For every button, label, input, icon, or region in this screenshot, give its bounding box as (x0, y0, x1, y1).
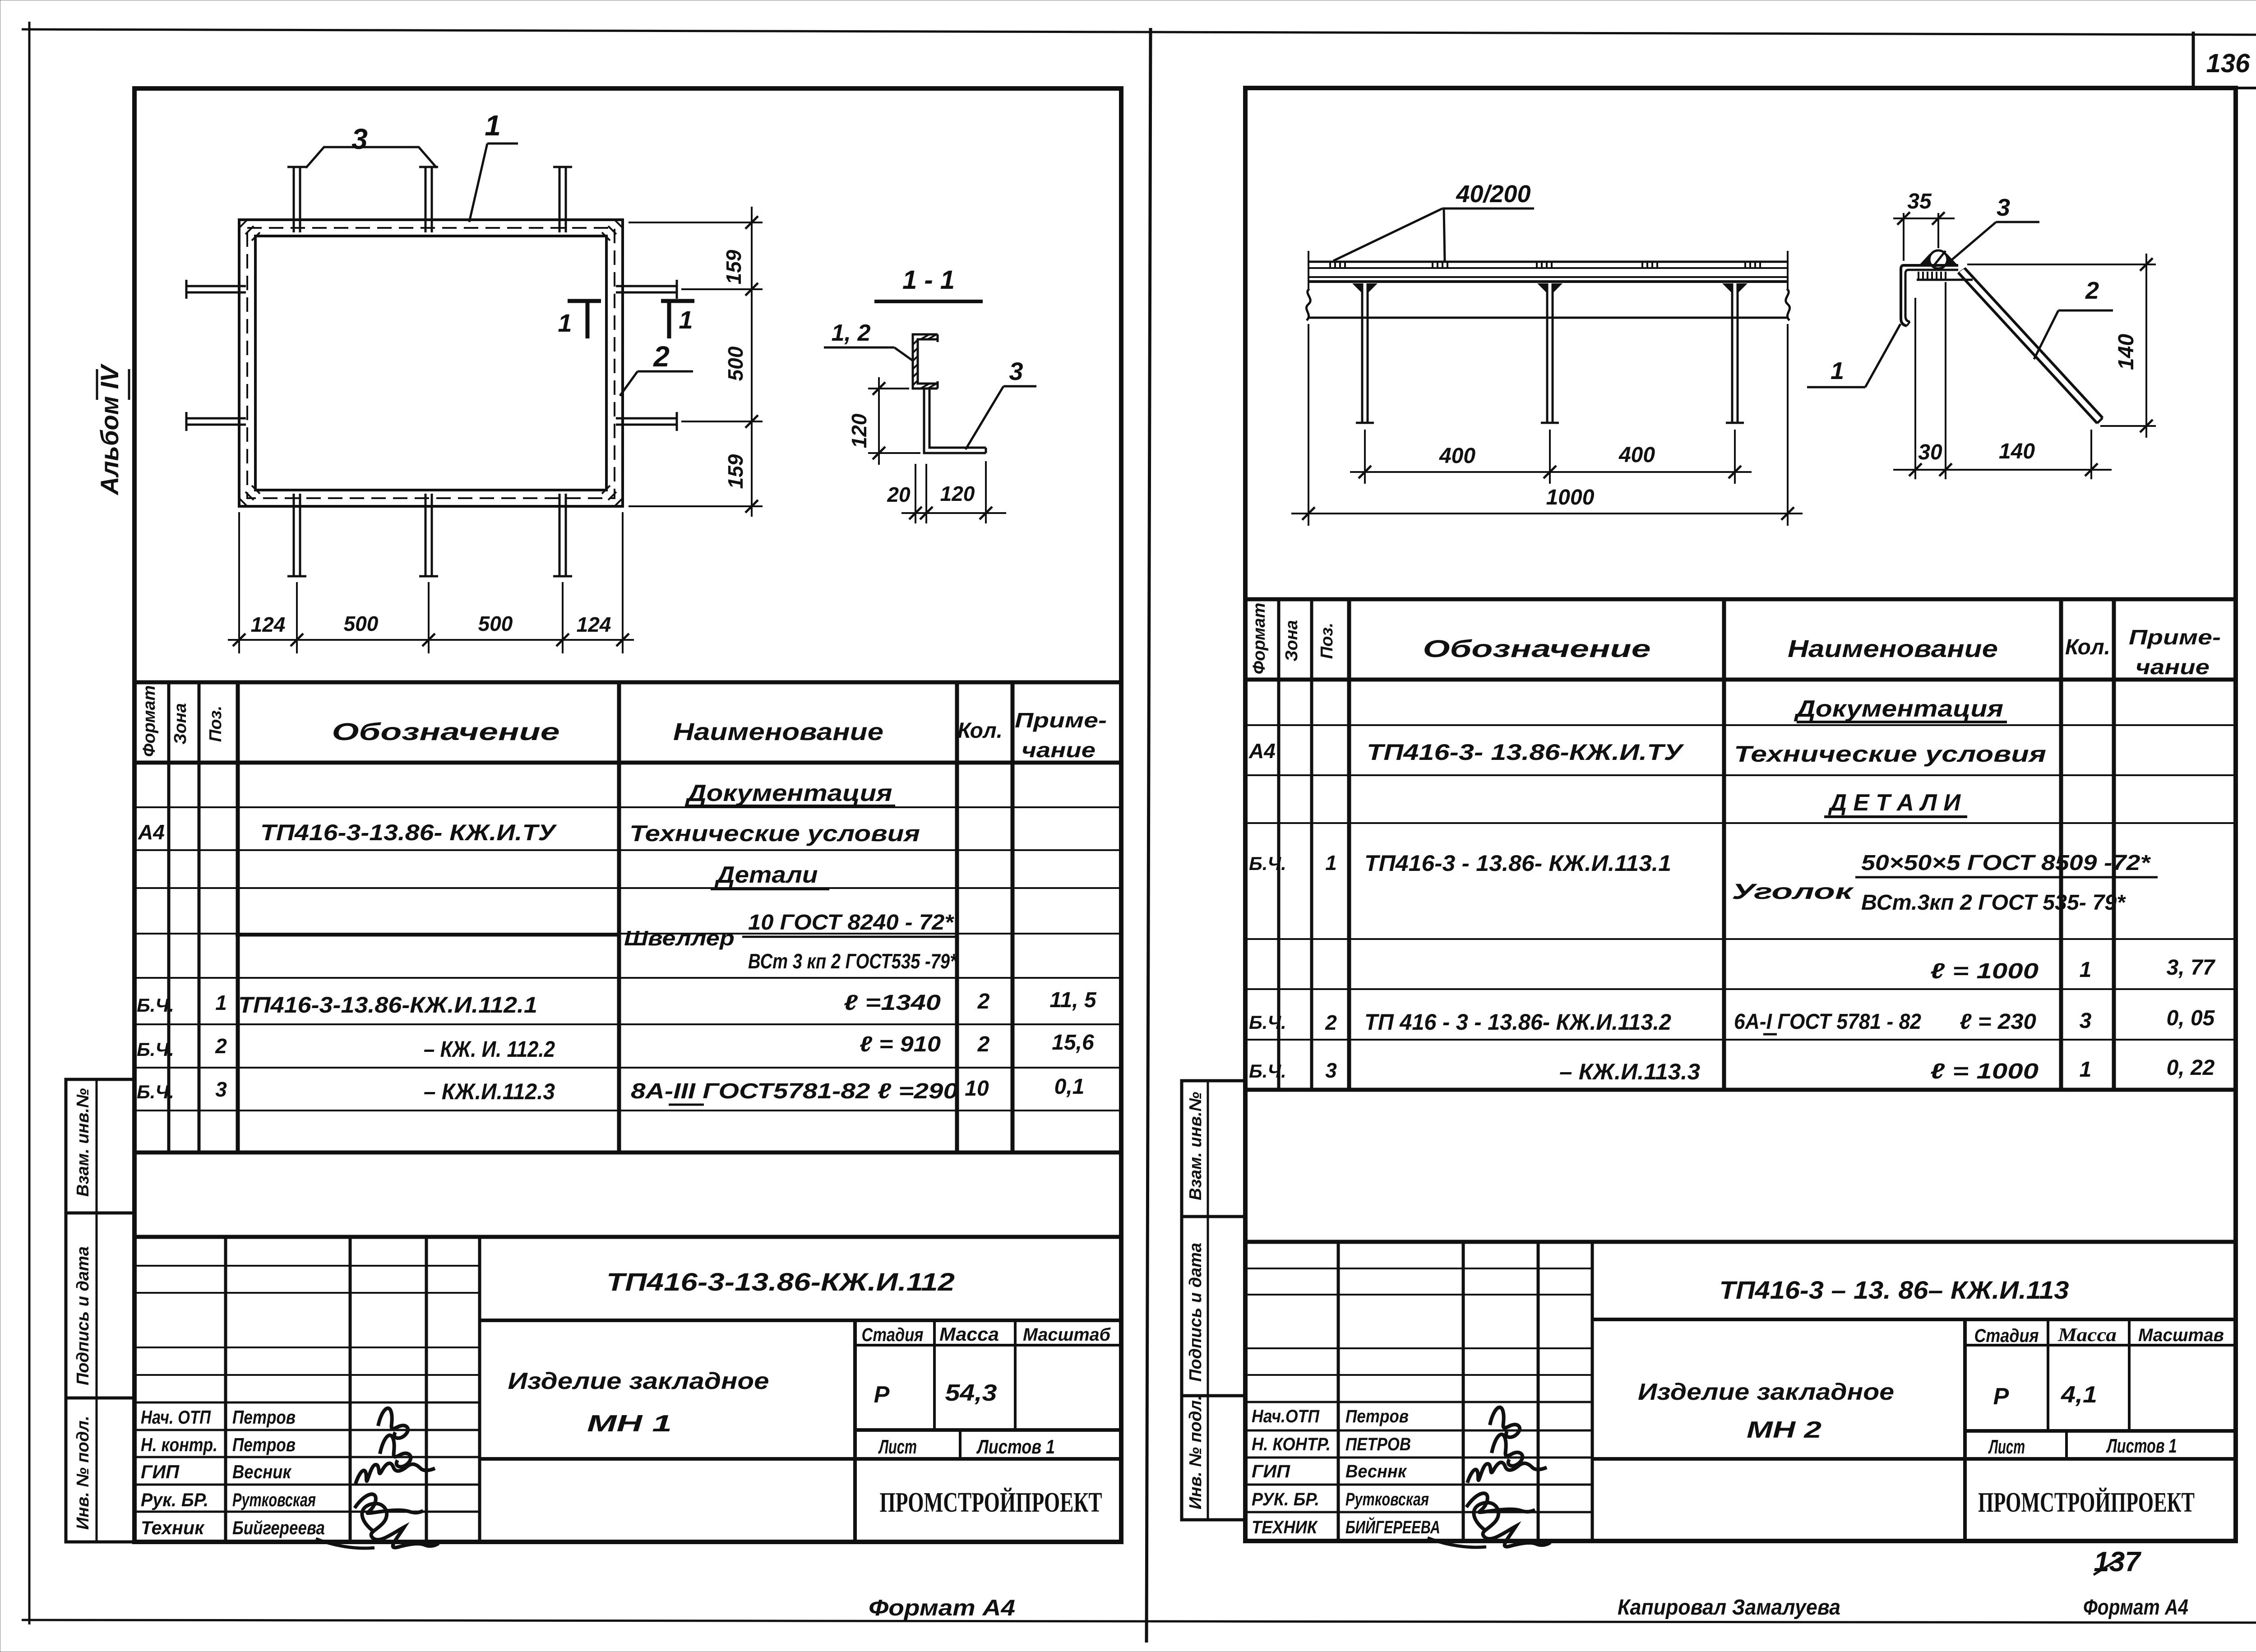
title block sheet 1: signature Техник (362, 1504, 439, 1548)
svg-text:4,1: 4,1 (2061, 1382, 2097, 1408)
svg-text:2: 2 (1325, 1011, 1337, 1034)
svg-text:Весник: Весник (232, 1461, 291, 1482)
svg-text:1: 1 (679, 305, 693, 334)
plan view: right dimension line 159/500/159 (751, 207, 753, 517)
svg-text:Петров: Петров (232, 1434, 296, 1455)
plan view: anchor studs поз.3, right edge (616, 285, 677, 287)
plan view: anchor studs поз.3, left edge (186, 285, 246, 287)
svg-text:30: 30 (1918, 440, 1942, 464)
title block sheet 2: signature Техник (1474, 1503, 1550, 1547)
svg-text:ТП416-3- 13.86-КЖ.И.ТУ: ТП416-3- 13.86-КЖ.И.ТУ (1367, 740, 1685, 765)
svg-text:1: 1 (1325, 851, 1337, 875)
svg-text:8А-III ГОСТ5781-82 ℓ =290: 8А-III ГОСТ5781-82 ℓ =290 (631, 1079, 958, 1103)
svg-text:Б.Ч.: Б.Ч. (1249, 1060, 1286, 1082)
svg-text:Техник: Техник (141, 1517, 205, 1538)
underline of IV (128, 369, 130, 400)
svg-text:РУК. БР.: РУК. БР. (1252, 1490, 1319, 1509)
svg-text:Б.Ч.: Б.Ч. (137, 1081, 174, 1102)
svg-text:Б.Ч.: Б.Ч. (1249, 1012, 1286, 1033)
svg-text:0, 22: 0, 22 (2167, 1056, 2215, 1080)
section 1-1: vertical dim 120 (878, 377, 880, 465)
svg-text:1 - 1: 1 - 1 (902, 265, 955, 295)
svg-text:Лист: Лист (1988, 1436, 2025, 1458)
spec table sheet 1: column lines (167, 682, 171, 1152)
svg-text:Капировал Замалуева: Капировал Замалуева (1618, 1596, 1840, 1620)
title block sheet 2: signature Нач.ОТП (1490, 1407, 1520, 1437)
title block sheet 1: frame lines (134, 1235, 1121, 1239)
svg-text:А4: А4 (138, 820, 165, 844)
svg-text:Швеллер: Швеллер (624, 926, 735, 950)
svg-text:чание: чание (1022, 738, 1096, 762)
svg-text:Кол.: Кол. (957, 719, 1003, 743)
svg-text:15,6: 15,6 (1052, 1031, 1094, 1055)
svg-text:3: 3 (2080, 1009, 2092, 1033)
svg-text:ТП416-3 – 13. 86– КЖ.И.113: ТП416-3 – 13. 86– КЖ.И.113 (1720, 1276, 2069, 1304)
svg-text:Масса: Масса (939, 1323, 999, 1345)
svg-text:40/200: 40/200 (1456, 180, 1530, 208)
title block sheet 1: column verticals (224, 1237, 227, 1542)
plan view: dashed centre line rectangle (247, 228, 615, 498)
svg-text:Б.Ч.: Б.Ч. (137, 1039, 174, 1060)
svg-text:Стадия: Стадия (1974, 1325, 2039, 1346)
section 1-1: anchor поз.3 (L-bar) (924, 389, 986, 453)
svg-text:2: 2 (215, 1034, 227, 1058)
plan view: channel frame outer rectangle (поз.1,2) (239, 220, 623, 506)
title block sheet 2: signature ГИП (1467, 1462, 1547, 1483)
title block sheet 2: thin rows upper area (1245, 1268, 1592, 1269)
page number box vertical (2192, 32, 2195, 89)
svg-text:Кол.: Кол. (2065, 635, 2110, 659)
elevation: anchor studs поз.2 (1361, 283, 1364, 423)
plan view: right extension lines (629, 222, 763, 223)
svg-text:Поз.: Поз. (1318, 623, 1336, 659)
svg-text:Подпись и дата: Подпись и дата (1186, 1243, 1205, 1382)
svg-text:3: 3 (1997, 194, 2010, 221)
svg-text:3: 3 (1325, 1059, 1337, 1082)
svg-text:Взам. инв.№: Взам. инв.№ (1186, 1092, 1205, 1200)
svg-text:Петров: Петров (232, 1407, 296, 1428)
svg-text:1, 2: 1, 2 (832, 320, 871, 346)
section 1-1: channel profile (поз.1,2) (913, 334, 938, 389)
svg-text:Бийгереева: Бийгереева (232, 1517, 325, 1538)
svg-text:Наименование: Наименование (673, 718, 883, 745)
svg-text:3: 3 (215, 1078, 227, 1101)
svg-text:МН 2: МН 2 (1747, 1417, 1821, 1443)
overline of IV (96, 369, 98, 400)
elevation: dim line 400 400 (1350, 471, 1752, 473)
svg-text:140: 140 (1999, 440, 2035, 463)
svg-text:Зона: Зона (1282, 620, 1301, 662)
svg-text:Приме-: Приме- (2129, 625, 2221, 649)
side box Подпись и дата (sheet 1) (66, 1213, 134, 1398)
side box Подпись и дата (sheet 2) (1182, 1217, 1245, 1396)
svg-text:10 ГОСТ 8240 - 72*: 10 ГОСТ 8240 - 72* (748, 911, 954, 935)
svg-text:ТП416-3 - 13.86- КЖ.И.113.1: ТП416-3 - 13.86- КЖ.И.113.1 (1364, 851, 1671, 876)
side box Взам. инв.№ (sheet 1) (66, 1079, 134, 1213)
svg-text:Масса: Масса (2057, 1325, 2117, 1346)
sheet 1 drawing frame (134, 88, 1121, 1542)
title block sheet 2: signature Н.контр. (1492, 1435, 1522, 1466)
side box Инв. № подл. (sheet 1) (66, 1398, 134, 1542)
svg-text:Нач.ОТП: Нач.ОТП (1252, 1407, 1320, 1426)
svg-text:Документация: Документация (685, 780, 892, 806)
svg-text:1: 1 (2080, 958, 2092, 982)
svg-text:3: 3 (351, 123, 368, 155)
svg-text:ПРОМСТРОЙПРОЕКТ: ПРОМСТРОЙПРОЕКТ (1978, 1487, 2195, 1518)
svg-text:ℓ = 910: ℓ = 910 (860, 1032, 941, 1056)
svg-text:ПЕТРОВ: ПЕТРОВ (1345, 1435, 1411, 1454)
side box Инв. № подл. (sheet 2) (1182, 1396, 1245, 1520)
svg-text:– КЖ.И.113.3: – КЖ.И.113.3 (1559, 1059, 1700, 1084)
svg-text:1: 1 (485, 109, 501, 142)
title block sheet 1: personnel row lines (134, 1402, 480, 1404)
svg-text:МН 1: МН 1 (587, 1411, 672, 1437)
svg-text:ℓ =1340: ℓ =1340 (844, 991, 941, 1015)
detail: vertical dim 140 (2145, 254, 2147, 438)
plan view: section mark 1 (left) (568, 299, 601, 303)
svg-text:159: 159 (724, 454, 747, 489)
svg-text:54,3: 54,3 (945, 1380, 997, 1406)
spec table sheet 2: column lines (1277, 599, 1281, 1090)
svg-text:Детали: Детали (714, 862, 818, 888)
svg-text:500: 500 (724, 346, 747, 381)
svg-text:Листов 1: Листов 1 (976, 1436, 1055, 1458)
svg-text:Лист: Лист (878, 1436, 917, 1458)
svg-text:1: 1 (1831, 357, 1844, 384)
svg-text:Б.Ч.: Б.Ч. (1249, 853, 1286, 874)
svg-text:2: 2 (653, 340, 670, 373)
svg-text:0, 05: 0, 05 (2167, 1006, 2215, 1030)
svg-text:Б.Ч.: Б.Ч. (137, 995, 174, 1016)
svg-text:1000: 1000 (1546, 486, 1595, 509)
plan view: anchor studs поз.3, top edge (293, 167, 295, 232)
title block sheet 1: thin rows upper area (134, 1265, 480, 1267)
svg-text:159: 159 (722, 250, 745, 284)
svg-text:ТЕХНИК: ТЕХНИК (1252, 1518, 1318, 1537)
scan border bottom line (22, 1620, 2256, 1623)
elevation: left end edge and break mark (1308, 251, 1309, 289)
svg-text:Рутковская: Рутковская (1345, 1490, 1429, 1509)
svg-text:ГИП: ГИП (141, 1461, 180, 1482)
section 1-1: channel hatching (913, 339, 918, 345)
svg-text:Петров: Петров (1345, 1407, 1409, 1426)
svg-text:Зона: Зона (171, 703, 190, 745)
svg-text:Формат: Формат (140, 685, 159, 757)
svg-text:3: 3 (1009, 357, 1023, 385)
svg-text:Инв. № подл.: Инв. № подл. (74, 1416, 92, 1530)
svg-text:Поз.: Поз. (206, 706, 225, 742)
svg-text:120: 120 (940, 482, 975, 505)
title block sheet 2: signature Рук.бр. (1466, 1493, 1535, 1512)
svg-text:А4: А4 (1248, 739, 1276, 763)
svg-text:Документация: Документация (1794, 696, 2003, 722)
detail: inclined anchor поз.2 (1958, 273, 2097, 423)
svg-text:Взам. инв.№: Взам. инв.№ (74, 1088, 92, 1197)
svg-text:Формат: Формат (1250, 603, 1269, 675)
svg-text:0,1: 0,1 (1054, 1075, 1085, 1099)
svg-text:Уголок: Уголок (1732, 880, 1854, 904)
svg-text:чание: чание (2136, 655, 2210, 679)
svg-text:500: 500 (478, 612, 513, 635)
title block sheet 2: top line (1245, 1240, 2236, 1244)
detail: bottom dims 30 and 140 (1893, 469, 2112, 471)
elevation: weld tick groups on angle (1329, 263, 1331, 269)
svg-text:Н. КОНТР.: Н. КОНТР. (1252, 1435, 1331, 1454)
svg-text:БИЙГЕРЕЕВА: БИЙГЕРЕЕВА (1345, 1516, 1440, 1537)
svg-text:500: 500 (344, 612, 379, 635)
svg-text:6А-I ГОСТ 5781 - 82: 6А-I ГОСТ 5781 - 82 (1734, 1010, 1921, 1034)
svg-text:Наименование: Наименование (1788, 635, 1998, 662)
detail: dim 35 (1893, 217, 1955, 219)
elevation: right end edge and break mark (1787, 251, 1789, 289)
svg-text:Рутковская: Рутковская (232, 1489, 316, 1510)
svg-text:ℓ = 230: ℓ = 230 (1960, 1010, 2036, 1034)
detail: slash through rod circle (1933, 251, 1946, 267)
detail: weld ticks under angle top leg (1918, 272, 1919, 279)
svg-text:Формат А4: Формат А4 (2083, 1596, 2188, 1620)
svg-text:Листов 1: Листов 1 (2106, 1435, 2177, 1457)
svg-text:136: 136 (2206, 49, 2251, 78)
svg-text:Н. контр.: Н. контр. (141, 1434, 217, 1455)
detail: angle поз.1 section (1901, 265, 1958, 326)
svg-text:Приме-: Приме- (1015, 708, 1107, 732)
elevation: lower edge line of angle leg (1308, 317, 1788, 319)
svg-text:400: 400 (1618, 443, 1655, 467)
svg-text:Р: Р (874, 1382, 890, 1408)
svg-text:Нач. ОТП: Нач. ОТП (141, 1407, 211, 1428)
svg-text:ТП416-3-13.86- КЖ.И.ТУ: ТП416-3-13.86- КЖ.И.ТУ (260, 820, 558, 845)
svg-text:3, 77: 3, 77 (2167, 956, 2216, 980)
title block sheet 2: column verticals (1337, 1242, 1340, 1540)
spec row: Швеллер fraction (236, 935, 618, 937)
svg-text:ℓ = 1000: ℓ = 1000 (1930, 1060, 2039, 1083)
svg-text:1: 1 (558, 309, 572, 337)
title block sheet 1: signature Нач.ОТП (378, 1408, 408, 1438)
spec table sheet 2: row lines (1245, 724, 2236, 726)
svg-text:Изделие закладное: Изделие закладное (1638, 1379, 1894, 1405)
svg-text:ТП 416 - 3 - 13.86- КЖ.И.113.2: ТП 416 - 3 - 13.86- КЖ.И.113.2 (1364, 1009, 1671, 1035)
plan view: bottom dimension line 124/500/500/124 (228, 639, 634, 641)
elevation: angle bar horizontal lines (1308, 261, 1788, 263)
svg-text:2: 2 (2085, 277, 2099, 304)
svg-text:Рук. БР.: Рук. БР. (141, 1489, 208, 1510)
elevation: dim line 1000 (1291, 513, 1803, 514)
scan border top line (22, 29, 2256, 35)
svg-text:ПРОМСТРОЙПРОЕКТ: ПРОМСТРОЙПРОЕКТ (880, 1487, 1102, 1518)
section 1-1: bottom dims 20 and 120 (901, 512, 1006, 514)
spec table sheet 1: row lines (134, 806, 1121, 808)
side box Взам. инв.№ (sheet 2) (1182, 1081, 1245, 1217)
svg-text:Обозначение: Обозначение (1423, 635, 1651, 662)
svg-text:ВСт.3кп 2 ГОСТ 535- 79*: ВСт.3кп 2 ГОСТ 535- 79* (1861, 891, 2126, 915)
svg-text:Обозначение: Обозначение (332, 718, 560, 745)
title block sheet 2: big cells (1592, 1318, 2236, 1321)
title block sheet 1: signature Рук.бр. (355, 1494, 423, 1513)
svg-text:Масштав: Масштав (2138, 1325, 2224, 1345)
svg-text:ГИП: ГИП (1252, 1462, 1290, 1481)
svg-text:2: 2 (977, 990, 990, 1013)
plan view: corner weld hatches (239, 220, 247, 228)
svg-text:Изделие закладное: Изделие закладное (508, 1368, 769, 1394)
svg-text:400: 400 (1439, 444, 1475, 468)
svg-text:2: 2 (977, 1032, 990, 1056)
svg-text:11, 5: 11, 5 (1049, 988, 1097, 1012)
svg-text:35: 35 (1907, 190, 1932, 213)
svg-text:Альбом IV: Альбом IV (95, 363, 124, 496)
svg-text:Масштаб: Масштаб (1023, 1325, 1111, 1345)
plan view: anchor studs поз.3, bottom edge (293, 494, 295, 576)
svg-text:ВСт 3 кп 2 ГОСТ535 -79*: ВСт 3 кп 2 ГОСТ535 -79* (748, 949, 957, 973)
page number box line (2236, 87, 2256, 89)
title block sheet 1: signature ГИП (356, 1463, 435, 1484)
svg-text:– КЖ. И. 112.2: – КЖ. И. 112.2 (424, 1037, 555, 1062)
svg-text:1: 1 (215, 991, 227, 1014)
svg-text:Инв. № подл.: Инв. № подл. (1186, 1395, 1205, 1509)
title block sheet 1: big cells (480, 1319, 1121, 1322)
svg-text:20: 20 (887, 483, 911, 506)
svg-text:Формат А4: Формат А4 (869, 1595, 1015, 1620)
svg-text:Д Е Т А Л И: Д Е Т А Л И (1828, 790, 1961, 816)
title block sheet 2: personnel row lines (1245, 1401, 1592, 1403)
svg-text:Весннк: Весннк (1345, 1462, 1407, 1481)
svg-text:– КЖ.И.112.3: – КЖ.И.112.3 (424, 1079, 555, 1104)
plan view: section mark 1 (right) (661, 299, 694, 303)
svg-text:ТП416-3-13.86-КЖ.И.112: ТП416-3-13.86-КЖ.И.112 (606, 1268, 955, 1296)
svg-text:Стадия: Стадия (862, 1324, 924, 1345)
svg-text:140: 140 (2114, 334, 2138, 370)
svg-text:Технические условия: Технические условия (1734, 741, 2046, 767)
svg-text:1: 1 (2080, 1058, 2092, 1082)
svg-text:120: 120 (847, 413, 871, 448)
spec table sheet 1: outer box and thick lines (134, 680, 1121, 685)
svg-text:Подпись и дата: Подпись и дата (74, 1246, 92, 1385)
svg-text:50×50×5 ГОСТ 8509 -72*: 50×50×5 ГОСТ 8509 -72* (1861, 851, 2151, 875)
detail: weld fillets at circle (1919, 254, 1931, 266)
svg-text:137: 137 (2094, 1546, 2141, 1578)
detail: rod поз.3 circle with slash (1929, 250, 1947, 268)
svg-text:124: 124 (577, 613, 611, 636)
page divider line (1146, 28, 1151, 1643)
spec table sheet 2: thick lines (1245, 597, 2236, 602)
title block sheet 1: signature Н.контр. (380, 1435, 411, 1467)
svg-text:10: 10 (965, 1077, 989, 1101)
svg-text:ТП416-3-13.86-КЖ.И.112.1: ТП416-3-13.86-КЖ.И.112.1 (238, 992, 537, 1018)
sheet 2 drawing frame (1245, 88, 2236, 1541)
svg-text:Р: Р (1993, 1384, 2009, 1410)
svg-text:Технические условия: Технические условия (629, 821, 920, 846)
plan view: bottom extension lines (238, 512, 240, 653)
scan border left line (28, 22, 31, 1624)
svg-text:ℓ = 1000: ℓ = 1000 (1930, 959, 2039, 983)
plan view: channel frame inner rectangle (255, 236, 606, 490)
svg-text:124: 124 (251, 613, 286, 636)
